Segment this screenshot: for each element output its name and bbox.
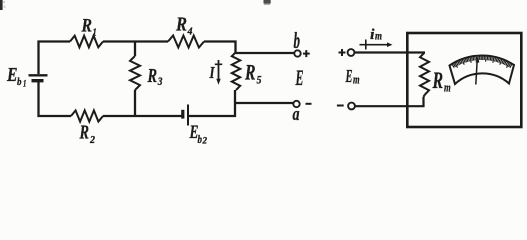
svg-text:b: b: [294, 28, 301, 53]
svg-text:a: a: [293, 104, 300, 125]
svg-text:R: R: [81, 16, 92, 37]
svg-text:R: R: [79, 122, 89, 144]
svg-text:m: m: [444, 80, 451, 95]
svg-text:E: E: [345, 66, 353, 86]
svg-text:5: 5: [257, 73, 262, 87]
svg-text:R: R: [244, 60, 255, 85]
svg-text:2: 2: [89, 134, 95, 146]
svg-text:2: 2: [202, 136, 208, 146]
svg-text:E: E: [295, 65, 304, 90]
svg-text:1: 1: [23, 79, 26, 89]
svg-text:E: E: [6, 64, 17, 86]
svg-text:R: R: [432, 68, 443, 94]
svg-text:b: b: [198, 132, 203, 146]
svg-text:m: m: [353, 73, 360, 87]
svg-text:R: R: [147, 65, 157, 87]
svg-text:b: b: [17, 76, 22, 88]
svg-text:3: 3: [157, 76, 163, 88]
svg-text:m: m: [375, 29, 382, 43]
svg-text:4: 4: [187, 27, 193, 38]
svg-text:1: 1: [93, 28, 97, 39]
svg-text:R: R: [175, 14, 187, 36]
